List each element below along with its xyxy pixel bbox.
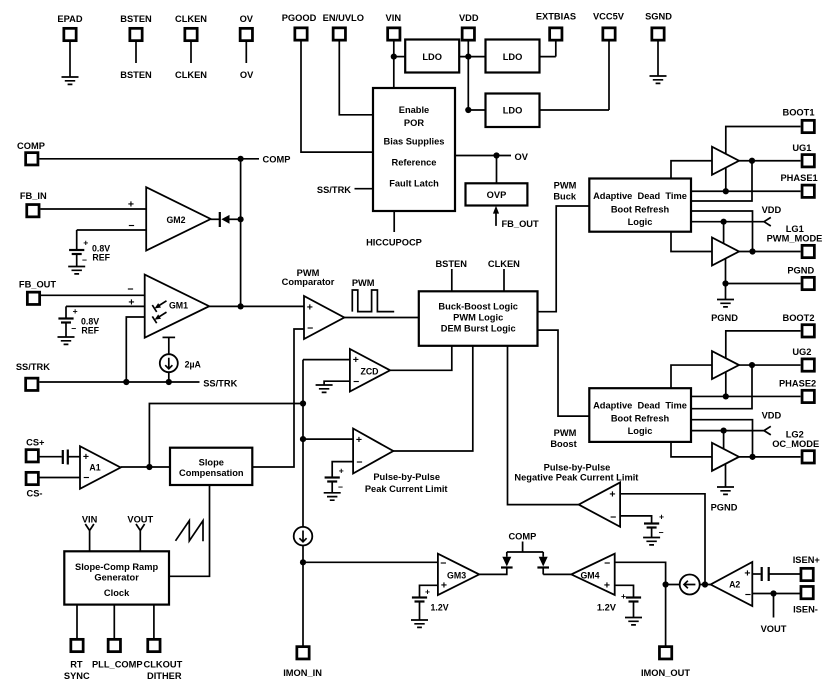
- wire BOOT1: [726, 127, 801, 155]
- svg-text:Boost: Boost: [550, 439, 576, 449]
- svg-text:LDO: LDO: [422, 52, 442, 62]
- wire current-sense bus vertical: [302, 360, 304, 646]
- svg-text:POR: POR: [404, 118, 424, 128]
- svg-text:VDD: VDD: [762, 411, 782, 421]
- wire negpeak - input: [620, 516, 652, 523]
- svg-text:GM2: GM2: [166, 215, 185, 225]
- svg-text:COMP: COMP: [508, 532, 536, 542]
- ground: [625, 618, 642, 625]
- svg-text:−: −: [604, 558, 610, 570]
- current source on IMON bus: [294, 527, 313, 546]
- sawtooth ramp symbol: [176, 521, 204, 542]
- svg-text:PHASE2: PHASE2: [779, 379, 816, 389]
- net VDD rail ch1: [691, 217, 771, 226]
- svg-text:+: +: [425, 587, 430, 597]
- driver buffer UG1: [712, 147, 739, 175]
- pad BSTEN: [130, 28, 142, 40]
- wire LDO1 to LDO2: [459, 56, 485, 58]
- block Adaptive Dead Time 1: [589, 179, 691, 232]
- svg-text:Slope: Slope: [199, 458, 224, 468]
- svg-text:VOUT: VOUT: [127, 515, 153, 525]
- clamp diode arrow 1 inside GM1: [159, 301, 167, 306]
- net OV output: [455, 155, 511, 157]
- svg-text:REF: REF: [81, 325, 99, 335]
- wire ZCD- to ground: [324, 381, 350, 385]
- svg-text:−: −: [127, 284, 133, 296]
- junction: [166, 379, 172, 385]
- ground: [62, 77, 79, 84]
- wire: [245, 40, 247, 63]
- wire GM1 output to PWM comparator: [209, 305, 304, 307]
- svg-text:LDO: LDO: [503, 52, 523, 62]
- svg-text:GM1: GM1: [169, 301, 188, 311]
- wire: [608, 40, 610, 110]
- wire driver2 input: [671, 232, 712, 252]
- svg-text:+: +: [609, 489, 615, 501]
- svg-text:PHASE1: PHASE1: [780, 173, 817, 183]
- triangle negpeak comparator: [579, 482, 620, 526]
- svg-text:Comparator: Comparator: [282, 277, 335, 287]
- svg-text:CS-: CS-: [26, 489, 42, 499]
- wire PHASE1 to driver1 bottom: [725, 167, 727, 191]
- wire peak limit + input: [303, 438, 353, 440]
- wire: [467, 40, 469, 110]
- svg-text:Pulse-by-Pulse: Pulse-by-Pulse: [373, 472, 440, 482]
- clamp diode arrow 2 inside GM1: [159, 312, 167, 317]
- pad VCC5V: [603, 28, 615, 40]
- svg-text:SS/TRK: SS/TRK: [203, 379, 237, 389]
- junction: [238, 303, 244, 309]
- wire: [135, 40, 137, 63]
- svg-text:A2: A2: [729, 580, 740, 590]
- wire LDO2 to EXTBIAS: [540, 56, 556, 58]
- wire: [339, 40, 373, 115]
- svg-text:SS/TRK: SS/TRK: [317, 185, 351, 195]
- block Adaptive Dead Time 2: [589, 388, 691, 442]
- block Slope Compensation: [170, 448, 252, 485]
- wire COMP rail: [39, 158, 259, 160]
- net COMP node: [507, 542, 543, 553]
- ground: [68, 267, 85, 274]
- svg-text:Peak Current Limit: Peak Current Limit: [365, 484, 448, 494]
- op-amp GM3: [438, 554, 479, 595]
- svg-text:+: +: [73, 306, 78, 316]
- svg-text:PWM Logic: PWM Logic: [453, 313, 503, 323]
- wire: [555, 40, 557, 57]
- svg-text:FB_IN: FB_IN: [20, 191, 47, 201]
- junction: [146, 464, 152, 470]
- svg-text:+: +: [744, 568, 750, 580]
- wire VDD to LDO3: [468, 109, 485, 111]
- svg-text:FB_OUT: FB_OUT: [502, 219, 540, 229]
- junction: [722, 280, 728, 286]
- svg-text:VDD: VDD: [762, 205, 782, 215]
- op-amp Pulse-by-Pulse Peak Current Limit: [353, 429, 393, 474]
- svg-text:BSTEN: BSTEN: [435, 259, 467, 269]
- wire peak limit - input: [332, 462, 353, 477]
- diode COMP to GM4: [542, 552, 544, 557]
- wire GM4 output: [543, 573, 571, 575]
- svg-text:Buck: Buck: [553, 192, 577, 202]
- svg-text:ISEN+: ISEN+: [793, 555, 821, 565]
- junction: [493, 152, 499, 158]
- wire node to IMON_OUT: [665, 585, 667, 646]
- svg-text:+: +: [307, 301, 313, 313]
- junction: [391, 54, 397, 60]
- svg-text:UG1: UG1: [792, 143, 811, 153]
- svg-text:BOOT2: BOOT2: [782, 313, 814, 323]
- svg-text:Buck-Boost Logic: Buck-Boost Logic: [438, 302, 518, 312]
- pad CLKOUT: [148, 639, 160, 651]
- svg-text:+: +: [659, 512, 664, 522]
- wire slope comp output to PWM comparator minus: [252, 329, 304, 467]
- wire bus to GM3- input: [303, 561, 438, 563]
- svg-text:LDO: LDO: [503, 106, 523, 116]
- svg-text:PGND: PGND: [711, 313, 738, 323]
- svg-text:Bias Supplies: Bias Supplies: [384, 136, 445, 146]
- wire logic to PWM Buck (adaptive 1): [538, 206, 590, 312]
- driver buffer LG1: [712, 238, 739, 266]
- junction: [465, 54, 471, 60]
- junction: [300, 400, 306, 406]
- svg-text:BSTEN: BSTEN: [120, 14, 152, 24]
- svg-text:−: −: [128, 220, 134, 232]
- svg-text:SYNC: SYNC: [64, 671, 90, 681]
- ground: [58, 337, 75, 344]
- svg-text:Negative Peak Current Limit: Negative Peak Current Limit: [514, 473, 638, 483]
- wire driver4 input: [671, 442, 712, 457]
- svg-text:Adaptive Dead Time: Adaptive Dead Time: [593, 191, 687, 201]
- wire to PLL_COMP pad: [113, 605, 115, 638]
- ground: [324, 493, 341, 500]
- wire GM4- node to mirror and A2: [666, 584, 711, 586]
- svg-text:Compensation: Compensation: [179, 468, 244, 478]
- wire PHASE2 to driver3 bottom: [725, 372, 727, 397]
- junction: [300, 559, 306, 565]
- svg-text:PWM: PWM: [554, 180, 577, 190]
- svg-text:PGOOD: PGOOD: [282, 13, 317, 23]
- pad IMON_OUT: [659, 647, 671, 659]
- svg-text:IMON_IN: IMON_IN: [283, 668, 322, 678]
- svg-text:A1: A1: [89, 463, 100, 473]
- wire FB_IN to GM2+: [40, 208, 146, 210]
- pad EPAD: [64, 28, 76, 40]
- svg-text:Enable: Enable: [399, 105, 429, 115]
- svg-text:PWM_MODE: PWM_MODE: [767, 234, 823, 244]
- svg-text:−: −: [610, 511, 616, 523]
- diode at GM2 output: [211, 218, 219, 220]
- wire GM3 output: [479, 568, 507, 575]
- wire driver2 to PGND: [726, 258, 801, 299]
- wire GM4- input: [615, 562, 666, 584]
- wire GM1+ input: [66, 305, 145, 307]
- capacitor in CS+ line: [38, 456, 61, 458]
- svg-text:Reference: Reference: [392, 158, 437, 168]
- wire PHASE2: [691, 395, 801, 397]
- wire driver3 output to UG2: [739, 364, 801, 366]
- wire LG1 from logic: [691, 211, 753, 252]
- svg-text:VOUT: VOUT: [761, 624, 787, 634]
- wire FB_OUT to GM1-: [41, 294, 145, 296]
- svg-text:−: −: [658, 528, 663, 538]
- ground: [643, 538, 660, 545]
- svg-text:CLKEN: CLKEN: [488, 259, 520, 269]
- block U1 Enable/POR/Bias/Reference/FaultLatch: [373, 88, 455, 211]
- wire: [301, 40, 373, 152]
- svg-text:Boot Refresh: Boot Refresh: [611, 414, 670, 424]
- regulator LDO3: [486, 94, 540, 128]
- block Buck-Boost Logic / PWM Logic / DEM Burst Logic: [419, 291, 538, 346]
- svg-text:Logic: Logic: [628, 217, 653, 227]
- wire ZCD+ input: [303, 359, 350, 361]
- pad COMP: [26, 153, 38, 165]
- junction: [702, 581, 708, 587]
- svg-text:HICCUPOCP: HICCUPOCP: [366, 237, 422, 247]
- svg-text:−: −: [353, 376, 359, 388]
- svg-text:−: −: [440, 558, 446, 570]
- pin ISEN-: [801, 586, 813, 598]
- svg-text:ZCD: ZCD: [360, 366, 378, 376]
- svg-text:Generator: Generator: [94, 573, 139, 583]
- op-amp GM4: [571, 554, 614, 595]
- regulator LDO2: [486, 40, 540, 73]
- pad FB_IN: [27, 205, 39, 217]
- driver buffer LG2: [712, 443, 739, 471]
- wire A1 output to Slope Compensation: [121, 466, 170, 468]
- pad VIN: [388, 28, 400, 40]
- svg-text:VDD: VDD: [459, 13, 479, 23]
- op-amp A2: [711, 562, 753, 606]
- svg-text:−: −: [356, 456, 362, 468]
- wire to RT pad: [76, 605, 78, 638]
- pad SGND: [652, 28, 664, 40]
- svg-text:+: +: [339, 466, 344, 476]
- svg-text:IMON_OUT: IMON_OUT: [641, 668, 690, 678]
- block OVP: [466, 183, 528, 205]
- svg-text:DEM Burst Logic: DEM Burst Logic: [441, 324, 516, 334]
- svg-text:2µA: 2µA: [185, 360, 202, 370]
- junction: [749, 158, 755, 164]
- net VOUT stub: [773, 594, 775, 618]
- wire ZCD output to logic: [390, 346, 452, 371]
- junction: [749, 362, 755, 368]
- svg-text:RT: RT: [70, 660, 83, 670]
- svg-text:−: −: [745, 589, 751, 601]
- svg-text:PWM: PWM: [352, 278, 375, 288]
- battery 0.8V REF (GM2): [76, 230, 78, 249]
- wire CS- to A1: [38, 477, 80, 479]
- svg-text:CLKOUT: CLKOUT: [144, 660, 183, 670]
- wire PWM comparator output: [344, 317, 419, 319]
- wire slope comp to ramp generator: [169, 485, 210, 576]
- junction: [723, 188, 729, 194]
- wire UG2 feedback to logic: [691, 365, 752, 409]
- junction: [663, 581, 669, 587]
- wire LDO3 to VCC5V: [540, 109, 610, 111]
- wire driver4 output to OC_MODE: [739, 456, 801, 458]
- wire COMP vertical bus: [240, 159, 242, 307]
- svg-text:Boot Refresh: Boot Refresh: [611, 204, 670, 214]
- pad RT: [71, 639, 83, 651]
- svg-text:1.2V: 1.2V: [597, 602, 617, 612]
- wire driver4 to ground: [725, 464, 727, 487]
- ground: [316, 385, 333, 392]
- svg-text:−: −: [338, 482, 343, 492]
- svg-text:+: +: [128, 198, 134, 210]
- svg-text:−: −: [83, 472, 89, 484]
- current source 2uA: [163, 336, 176, 338]
- pad VDD: [462, 28, 474, 40]
- wire PHASE1: [691, 190, 801, 192]
- svg-text:LG1: LG1: [786, 224, 804, 234]
- regulator LDO1: [405, 40, 459, 73]
- svg-text:GM3: GM3: [447, 570, 466, 580]
- svg-text:UG2: UG2: [792, 347, 811, 357]
- pad EN/UVLO: [333, 28, 345, 40]
- wire LG2 from logic: [691, 420, 753, 457]
- junction: [770, 590, 776, 596]
- junction: [465, 107, 471, 113]
- junction: [721, 428, 727, 434]
- wire: [355, 188, 374, 190]
- junction: [238, 156, 244, 162]
- svg-text:+: +: [128, 297, 134, 309]
- wire OV to OVP: [496, 156, 498, 184]
- svg-text:GM4: GM4: [580, 570, 599, 580]
- svg-text:OV: OV: [515, 152, 529, 162]
- pad EXTBIAS: [550, 28, 562, 40]
- svg-text:EN/UVLO: EN/UVLO: [323, 13, 364, 23]
- ground PGND ch1: [717, 300, 734, 307]
- svg-text:OV: OV: [240, 70, 254, 80]
- driver buffer UG2: [712, 351, 739, 379]
- svg-text:PWM: PWM: [554, 428, 577, 438]
- net FB_OUT arrow into OVP: [495, 212, 497, 226]
- wire driver2 output to PWM_MODE: [739, 251, 801, 253]
- pad PLL_COMP: [108, 639, 120, 651]
- svg-text:FB_OUT: FB_OUT: [19, 280, 57, 290]
- svg-text:Fault Latch: Fault Latch: [389, 178, 439, 188]
- wire logic to negative peak comparator: [508, 346, 579, 505]
- pad PGOOD: [295, 28, 307, 40]
- wire GM3+ input: [420, 585, 438, 596]
- svg-text:VIN: VIN: [82, 515, 98, 525]
- svg-text:SGND: SGND: [645, 11, 672, 21]
- pad SS/TRK: [26, 378, 38, 390]
- svg-text:DITHER: DITHER: [147, 671, 182, 681]
- svg-text:OV: OV: [240, 14, 254, 24]
- svg-text:Slope-Comp Ramp: Slope-Comp Ramp: [75, 562, 158, 572]
- battery 1.2V (GM3): [412, 596, 427, 598]
- pad CS+: [26, 450, 38, 462]
- battery (negpeak ref): [644, 522, 659, 524]
- svg-text:PLL_COMP: PLL_COMP: [92, 660, 143, 670]
- svg-text:Adaptive Dead Time: Adaptive Dead Time: [593, 401, 687, 411]
- svg-text:Logic: Logic: [628, 426, 653, 436]
- ground PGND ch2: [717, 487, 734, 494]
- diode COMP to GM3: [501, 566, 513, 568]
- wire: [190, 40, 192, 63]
- svg-text:+: +: [83, 237, 88, 247]
- pad IMON_IN: [297, 647, 309, 659]
- svg-text:+: +: [621, 591, 626, 601]
- wire driver1 output to UG1: [739, 160, 801, 162]
- svg-text:LG2: LG2: [786, 429, 804, 439]
- wire BOOT2: [726, 331, 801, 359]
- svg-text:SS/TRK: SS/TRK: [16, 362, 50, 372]
- junction: [238, 216, 244, 222]
- svg-text:1.2V: 1.2V: [431, 602, 449, 612]
- svg-text:CS+: CS+: [26, 438, 45, 448]
- svg-text:PGND: PGND: [711, 503, 738, 513]
- junction: [300, 436, 306, 442]
- svg-text:COMP: COMP: [17, 141, 45, 151]
- wire UG1 feedback to logic: [691, 161, 752, 201]
- op-amp ZCD: [350, 349, 390, 392]
- pad CS-: [26, 472, 38, 484]
- battery 0.8V REF (GM1): [65, 306, 67, 317]
- wire: [69, 40, 71, 77]
- svg-text:+: +: [353, 354, 359, 366]
- svg-text:VIN: VIN: [386, 13, 402, 23]
- svg-text:EXTBIAS: EXTBIAS: [536, 11, 576, 21]
- svg-text:BOOT1: BOOT1: [782, 108, 814, 118]
- net HICCUPOCP: [393, 211, 395, 232]
- junction: [749, 248, 755, 254]
- current mirror: [680, 575, 700, 595]
- wire VDD to driver2: [723, 222, 725, 245]
- svg-text:CLKEN: CLKEN: [175, 14, 207, 24]
- battery (peak current limit ref): [325, 476, 340, 478]
- junction: [723, 393, 729, 399]
- wire: [657, 40, 659, 76]
- battery 1.2V (GM4): [626, 596, 641, 598]
- wire logic to PWM Boost (adaptive 2): [538, 330, 590, 416]
- pad CLKEN: [185, 28, 197, 40]
- svg-text:+: +: [83, 451, 89, 463]
- svg-text:−: −: [71, 324, 76, 334]
- block Slope-Comp Ramp Generator / Clock: [64, 551, 169, 604]
- net VDD rail ch2: [691, 426, 771, 435]
- wire VDD to driver4: [723, 431, 725, 450]
- wire GM2- input: [77, 229, 147, 231]
- svg-text:−: −: [307, 323, 313, 335]
- pad OV: [240, 28, 252, 40]
- svg-text:Pulse-by-Pulse: Pulse-by-Pulse: [544, 462, 611, 472]
- wire A1 output up to current bus: [149, 404, 303, 468]
- wire peak limit output to logic: [393, 346, 473, 451]
- svg-text:PGND: PGND: [787, 266, 814, 276]
- wire SS/TRK rail: [39, 381, 199, 383]
- svg-text:Clock: Clock: [104, 588, 130, 598]
- wire negpeak + input: [620, 494, 705, 585]
- ground: [650, 76, 667, 83]
- op-amp A1: [80, 446, 121, 489]
- wire A2- input: [752, 593, 800, 595]
- svg-text:EPAD: EPAD: [57, 14, 82, 24]
- wire VIN to LDO1: [394, 56, 405, 58]
- ground: [411, 620, 428, 627]
- svg-text:REF: REF: [92, 252, 110, 262]
- svg-text:ISEN-: ISEN-: [793, 604, 818, 614]
- op-amp GM2: [146, 187, 211, 250]
- wire GM4+ input: [615, 585, 634, 596]
- svg-text:−: −: [82, 255, 87, 265]
- wire driver3 input: [671, 365, 712, 388]
- junction: [721, 219, 727, 225]
- junction: [749, 454, 755, 460]
- svg-text:OVP: OVP: [487, 190, 507, 200]
